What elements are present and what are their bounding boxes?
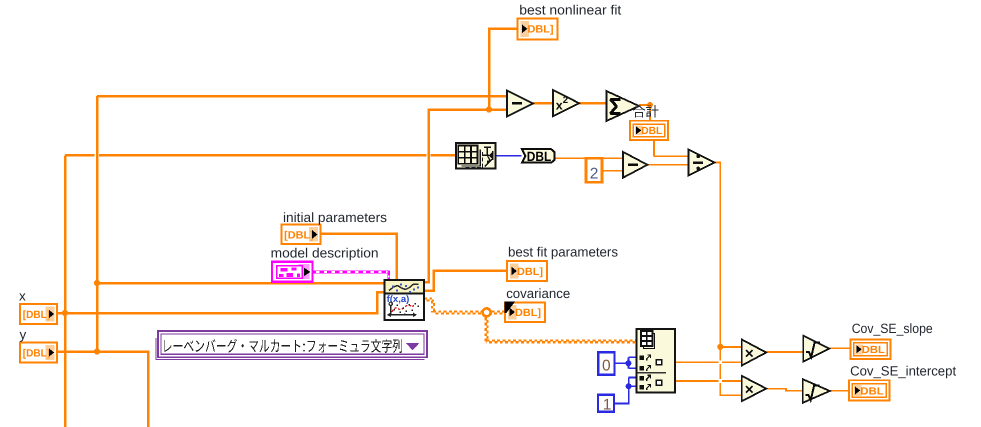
svg-text:[DBL: [DBL xyxy=(23,347,47,359)
svg-text:best fit parameters: best fit parameters xyxy=(508,245,618,260)
wire x-data: control to VI x input xyxy=(57,292,386,313)
control model description (cluster) xyxy=(272,262,312,282)
label sum (goukei) xyxy=(633,105,659,117)
svg-text:DBL: DBL xyxy=(641,126,663,137)
svg-text:1: 1 xyxy=(603,396,612,413)
svg-text:y: y xyxy=(20,327,27,342)
indicator covariance xyxy=(505,302,545,322)
svg-text:[DBL: [DBL xyxy=(23,309,47,321)
wire y-data: control to right, turning down off-screen xyxy=(57,352,148,427)
wire index array element1 to multiply1 bottom input xyxy=(675,360,742,364)
to-double conversion bubble xyxy=(522,149,554,164)
label y xyxy=(20,327,27,342)
indicator best fit parameters xyxy=(507,261,547,281)
label initial parameters xyxy=(283,210,387,225)
label model description xyxy=(271,246,379,261)
wire sqrt2 to Cov_SE_intercept indicator xyxy=(830,390,849,392)
wire covariance down to index array xyxy=(486,317,637,342)
svg-text:Cov_SE_slope: Cov_SE_slope xyxy=(852,321,933,336)
wire array size to DBL conversion (blue I32) xyxy=(496,155,522,157)
svg-text:×: × xyxy=(745,381,754,398)
wire y-data to subtract top input xyxy=(97,95,507,98)
ring constant text xyxy=(164,339,402,353)
svg-text:2: 2 xyxy=(563,95,568,106)
svg-text:x: x xyxy=(556,99,563,113)
label x xyxy=(19,289,26,304)
wire x-data to Array Size input xyxy=(65,153,456,157)
junction y-data at control row xyxy=(94,348,100,354)
svg-text:DBL]: DBL] xyxy=(517,266,543,278)
control x xyxy=(20,304,57,324)
svg-text:DBL: DBL xyxy=(860,386,884,397)
constant 1 xyxy=(598,395,614,414)
svg-text:2: 2 xyxy=(590,166,599,183)
sum node (add array elements) xyxy=(606,91,639,121)
wire y-data vertical branch up xyxy=(96,96,99,351)
svg-text:f(x,a): f(x,a) xyxy=(387,294,410,305)
wire multiply2 to sqrt2 xyxy=(766,389,803,391)
svg-text:best nonlinear fit: best nonlinear fit xyxy=(519,2,621,17)
junction best-nonlinear-fit branch xyxy=(486,106,492,112)
svg-text:Cov_SE_intercept: Cov_SE_intercept xyxy=(850,364,956,379)
wire subtract to x^2 xyxy=(533,102,553,105)
wire constant 1 to index array (branches) xyxy=(614,377,637,403)
array size node xyxy=(456,143,496,169)
square node x^2 xyxy=(553,90,579,116)
wire covariance to indicator xyxy=(492,311,505,313)
wire y-data into VI y input xyxy=(97,282,386,285)
label Cov_SE_intercept xyxy=(850,364,956,379)
label Cov_SE_slope xyxy=(852,321,933,336)
junction y-data at VI branch xyxy=(94,280,100,286)
constant 2 xyxy=(586,158,602,182)
indicator Cov_SE_slope xyxy=(851,340,891,360)
ring constant Levenberg-Marquardt formula string xyxy=(156,331,427,360)
wire model description (cluster, dashed magenta) xyxy=(312,272,388,281)
junction mse branch xyxy=(717,344,723,350)
wire index array element2 to multiply2 top input xyxy=(675,379,742,383)
svg-text:initial parameters: initial parameters xyxy=(283,210,387,225)
square root node 2 xyxy=(803,379,830,403)
constant 0 xyxy=(598,352,614,375)
junction covariance (ring) xyxy=(483,308,491,316)
nonlinear curve fit VI xyxy=(385,280,425,320)
label covariance xyxy=(506,286,570,301)
control initial parameters xyxy=(281,225,320,245)
indicator best nonlinear fit xyxy=(518,18,558,39)
subtract node (N - 2) xyxy=(623,152,647,178)
label best nonlinear fit xyxy=(519,2,621,17)
multiply node 2 xyxy=(742,376,766,401)
svg-text:covariance: covariance xyxy=(506,286,570,301)
junction index 0 xyxy=(625,360,631,366)
wire subtract2 to divide bottom input xyxy=(647,164,688,166)
svg-text:DBL]: DBL] xyxy=(515,307,541,319)
wire initial parameters to VI xyxy=(321,234,397,281)
wire sqrt1 to Cov_SE_slope indicator xyxy=(829,347,850,349)
wire constant 2 to subtract2 bottom input xyxy=(602,170,623,172)
wire DBL conversion to subtract2 top input xyxy=(555,157,623,159)
square root node 1 xyxy=(803,336,829,362)
wire constant 0 to index array (branches) xyxy=(615,357,637,368)
mouse cursor xyxy=(505,302,516,314)
indicator sum DBL xyxy=(630,121,668,140)
index array node xyxy=(637,329,676,392)
wire best-fit-parameters: VI output to indicator xyxy=(424,271,507,291)
svg-text:[DBL: [DBL xyxy=(284,229,311,241)
wire best-nonlinear-fit: VI output up to subtract bottom input xyxy=(424,110,507,283)
svg-text:0: 0 xyxy=(602,358,611,375)
control y xyxy=(20,343,57,363)
wire multiply1 to sqrt1 xyxy=(766,351,803,353)
multiply node 1 xyxy=(742,340,766,366)
wire branch to best nonlinear fit indicator xyxy=(489,29,518,110)
wire sum output to DBL indicator and divide xyxy=(639,105,689,156)
svg-text:model description: model description xyxy=(271,246,379,261)
junction index 1 xyxy=(626,383,632,389)
wire branch to multiply1 top input xyxy=(720,346,742,348)
svg-text:DBL: DBL xyxy=(862,345,886,356)
junction sum output xyxy=(647,102,653,108)
junction x-data xyxy=(62,310,68,316)
svg-text:x: x xyxy=(19,289,26,304)
svg-text:DBL: DBL xyxy=(527,149,552,164)
wire covariance 2D array (hatched) from VI xyxy=(424,299,482,314)
label best fit parameters xyxy=(508,245,618,260)
wire x^2 to sum xyxy=(579,102,606,105)
svg-text:×: × xyxy=(745,345,754,362)
subtract node (y - fit) xyxy=(507,91,533,117)
indicator Cov_SE_intercept xyxy=(849,380,890,400)
divide node xyxy=(688,149,714,175)
wire x-data branch: vertical down off-screen and up to Array Size row xyxy=(64,155,67,427)
wire divide output down to multiply2 bottom input xyxy=(714,162,741,395)
svg-text:DBL]: DBL] xyxy=(528,24,554,36)
